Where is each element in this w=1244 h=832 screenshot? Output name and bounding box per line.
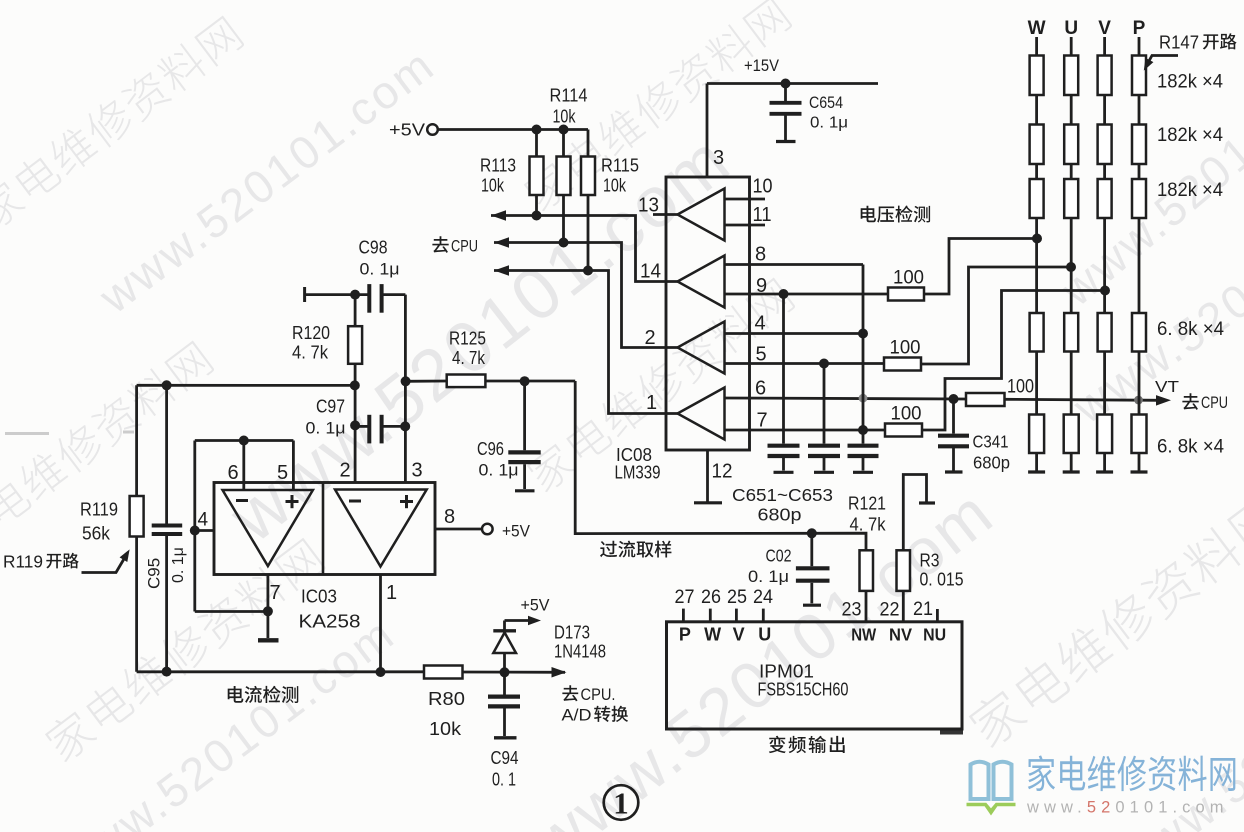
power +15V rail — [707, 57, 878, 84]
comparator IC08 LM339 body — [666, 177, 750, 450]
svg-text:C341: C341 — [973, 432, 1009, 452]
wire U across VT line — [1070, 352, 1073, 415]
node R115 bottom on CPU wire 3 — [583, 266, 593, 276]
pin 5 lead — [292, 441, 295, 491]
node P column junction on VT line — [1134, 396, 1143, 405]
svg-text:VT: VT — [1155, 379, 1179, 396]
svg-text:NV: NV — [889, 625, 912, 645]
pin 4 lead — [195, 529, 214, 532]
op-amp B triangle — [335, 490, 427, 567]
svg-text:182k ×4: 182k ×4 — [1157, 180, 1223, 201]
wire current-sense bottom line — [137, 670, 424, 673]
comparator U1C triangle — [678, 322, 725, 374]
svg-text:3: 3 — [713, 147, 724, 169]
wire overcurrent sense line — [575, 381, 866, 550]
wire V across VT line — [1103, 352, 1106, 415]
resistor U 6.8k lower — [1063, 415, 1080, 473]
svg-text:LM339: LM339 — [615, 462, 661, 483]
label R80 10k — [428, 688, 465, 739]
wire +5V rail to R115 — [438, 128, 588, 131]
pin 13 output stub — [653, 213, 678, 216]
pin 1 lead — [379, 575, 382, 673]
pin 4 line — [725, 332, 864, 335]
pin 3 V+ lead — [706, 84, 709, 178]
logo text 家电维修资料网 — [1028, 755, 1236, 791]
svg-text:C651~C653: C651~C653 — [732, 485, 833, 505]
node R114 bottom on CPU wire 2 — [559, 238, 569, 248]
node C02 junction — [807, 528, 817, 538]
resistor U 6.8k upper — [1064, 313, 1078, 352]
svg-text:D173: D173 — [554, 623, 590, 643]
svg-text:1N4148: 1N4148 — [554, 642, 606, 662]
svg-text:+5V: +5V — [389, 120, 425, 140]
svg-text:R3: R3 — [920, 550, 940, 571]
svg-text:CPU: CPU — [451, 237, 478, 256]
wire feedback bottom — [195, 610, 268, 613]
resistor W 6.8k upper — [1030, 313, 1044, 352]
capacitor C02 — [796, 533, 830, 605]
svg-text:P: P — [1133, 18, 1146, 39]
capacitor C652 — [808, 364, 840, 473]
wire W across VT line — [1035, 352, 1038, 415]
resistor P 6.8k lower — [1131, 415, 1148, 473]
svg-text:NU: NU — [923, 625, 946, 645]
svg-text:6. 8k ×4: 6. 8k ×4 — [1157, 437, 1224, 458]
resistor ladder U 182k row3 — [1064, 164, 1078, 218]
svg-text:23: 23 — [842, 600, 862, 621]
node D173 C94 junction — [500, 667, 510, 677]
power +5V terminal — [389, 120, 438, 140]
resistor ladder P 182k row3 — [1132, 164, 1146, 218]
node pin6 net junction C341 — [949, 394, 959, 404]
wire pin8-pin4-pin7 vertical bus — [862, 265, 865, 444]
wire 100#1 to W column — [924, 239, 1037, 295]
capacitor C654 — [770, 84, 802, 142]
svg-text:6: 6 — [227, 462, 238, 484]
leader arrow R147 — [1144, 56, 1178, 71]
capacitor C94 — [488, 672, 520, 738]
svg-text:100: 100 — [1007, 377, 1034, 398]
op-amp IC03 KA258 body — [214, 483, 435, 575]
label R115 10k — [601, 155, 639, 196]
resistor 100 #2 — [884, 358, 921, 371]
label R147 open — [1159, 32, 1237, 53]
pin 7 lead and ground — [258, 575, 279, 641]
wire 100#2 to U column — [921, 267, 1071, 364]
label C98 0.1u — [359, 237, 400, 279]
resistor V 6.8k upper — [1098, 313, 1112, 352]
label R3 0.015 — [920, 550, 964, 590]
resistor ladder V 182k row1 — [1098, 37, 1112, 95]
pin 26 stub — [709, 609, 712, 622]
wire stub C98 left terminal — [305, 287, 369, 302]
logo url www.520101.com — [1026, 799, 1229, 817]
capacitor C97 — [355, 415, 405, 444]
svg-text:R80: R80 — [428, 688, 465, 709]
svg-text:C96: C96 — [477, 438, 504, 459]
pin 6 lead — [242, 441, 245, 491]
svg-text:R119: R119 — [80, 499, 118, 520]
resistor ladder U 182k row2 — [1064, 95, 1078, 164]
svg-text:14: 14 — [640, 261, 661, 283]
resistor ladder V 182k row3 — [1098, 164, 1112, 218]
svg-text:+5V: +5V — [502, 523, 530, 541]
label C97 0.1u — [306, 396, 346, 438]
node C96 top — [520, 376, 530, 386]
capacitor C651 — [768, 294, 800, 472]
svg-text:CPU: CPU — [1201, 394, 1228, 412]
pin 5 line — [725, 362, 885, 365]
svg-text:V: V — [733, 625, 745, 645]
node R113 top junction — [532, 125, 542, 135]
wire V column to junction — [1103, 218, 1106, 313]
node pin 4 — [190, 526, 200, 536]
svg-text:4. 7k: 4. 7k — [850, 515, 887, 535]
svg-text:3: 3 — [411, 460, 422, 482]
svg-text:8: 8 — [444, 506, 455, 528]
svg-text:R119: R119 — [3, 552, 43, 572]
node R113 bottom on CPU wire 1 — [532, 211, 542, 221]
svg-text:8: 8 — [755, 244, 766, 266]
wire P column down — [1138, 218, 1141, 313]
wire pins 6-5 top link — [195, 439, 294, 442]
svg-text:27: 27 — [675, 587, 695, 608]
wire to CPU 2 (pin 2 net) — [494, 237, 678, 347]
resistor W 6.8k lower — [1028, 415, 1045, 473]
svg-text:R121: R121 — [848, 493, 886, 514]
svg-text:26: 26 — [701, 587, 721, 608]
wire R120 to pin2 via C97 node — [354, 385, 357, 482]
resistor R125 — [406, 375, 576, 388]
pin 8 line — [725, 263, 864, 266]
label 去CPU — [432, 236, 478, 255]
scan artifact dashes — [5, 432, 49, 435]
svg-text:680p: 680p — [973, 453, 1010, 473]
svg-text:1: 1 — [613, 786, 629, 821]
wire feedback left rail — [193, 441, 196, 612]
resistor R80 — [424, 666, 567, 679]
label C654 0.1u — [809, 93, 848, 132]
node V column junction — [1100, 286, 1110, 296]
svg-text:6. 8k ×4: 6. 8k ×4 — [1157, 319, 1224, 340]
svg-text:0. 1μ: 0. 1μ — [360, 260, 400, 279]
svg-text:5: 5 — [277, 462, 288, 484]
svg-text:1: 1 — [386, 582, 397, 604]
wire U column to junction — [1070, 218, 1073, 313]
wire inverting input net horizontal — [137, 384, 355, 387]
resistor 100 #4 — [966, 393, 1005, 406]
module IPM01 FSBS15CH60 body — [667, 622, 963, 729]
svg-text:4. 7k: 4. 7k — [292, 343, 329, 363]
pin 24 stub — [762, 609, 765, 622]
svg-text:10k: 10k — [553, 107, 577, 127]
svg-text:V: V — [1098, 18, 1111, 39]
comparator U1D triangle — [678, 388, 725, 440]
svg-text:U: U — [1064, 18, 1078, 39]
svg-text:A/D: A/D — [562, 706, 592, 725]
pin 9 line — [725, 293, 889, 296]
pin 7 line — [725, 429, 886, 432]
resistor ladder W 182k row1 — [1030, 37, 1044, 95]
svg-text:0. 1μ: 0. 1μ — [748, 567, 789, 586]
svg-text:C95: C95 — [145, 558, 164, 589]
label R120 4.7k — [292, 322, 330, 363]
svg-text:10: 10 — [753, 176, 773, 198]
svg-text:0. 015: 0. 015 — [920, 570, 964, 590]
svg-text:5: 5 — [756, 344, 767, 366]
resistor V 6.8k lower — [1096, 415, 1113, 473]
svg-text:4. 7k: 4. 7k — [452, 348, 486, 368]
op-amp A triangle — [223, 490, 313, 566]
label 去CPU right — [1182, 393, 1228, 412]
svg-text:0. 1μ: 0. 1μ — [810, 115, 848, 132]
label 变频输出 — [769, 736, 786, 753]
svg-text:22: 22 — [880, 600, 900, 621]
label 去CPU AD — [562, 685, 629, 725]
label C341 680p — [973, 432, 1011, 473]
svg-text:KA258: KA258 — [299, 611, 361, 632]
pin 27 stub — [682, 609, 685, 622]
svg-text:21: 21 — [913, 599, 933, 620]
resistor ladder W 182k row2 — [1030, 95, 1044, 164]
pin 8 lead and +5V terminal — [435, 523, 530, 541]
wire W column to junction — [1035, 218, 1038, 313]
svg-text:C654: C654 — [809, 93, 843, 112]
logo book icon — [967, 762, 1016, 813]
svg-text:W: W — [1028, 18, 1046, 39]
svg-text:25: 25 — [727, 587, 747, 608]
page number circle 1 — [604, 785, 639, 820]
resistor ladder P 182k row2 — [1132, 95, 1146, 164]
svg-text:IC03: IC03 — [301, 586, 337, 607]
comparator U1B triangle — [678, 256, 725, 308]
svg-text:7: 7 — [270, 582, 281, 604]
svg-text:+15V: +15V — [744, 57, 779, 75]
pin 6 line to 100 ohm — [725, 398, 967, 399]
wire VT line to CPU — [1005, 395, 1172, 406]
svg-text:R113: R113 — [480, 155, 516, 176]
resistor ladder W 182k row3 — [1030, 164, 1044, 218]
svg-text:6: 6 — [755, 378, 766, 400]
label D173 1N4148 — [554, 623, 606, 662]
node C95 bottom — [162, 667, 172, 677]
label R114 10k — [550, 85, 588, 127]
svg-text:0. 1μ: 0. 1μ — [479, 461, 519, 480]
svg-text:10k: 10k — [603, 176, 627, 196]
resistor R115 — [581, 130, 595, 271]
node R120 bottom — [350, 380, 360, 390]
label R121 4.7k — [848, 493, 886, 535]
svg-text:1: 1 — [646, 392, 657, 414]
resistor R113 — [530, 130, 544, 216]
svg-text:0. 1: 0. 1 — [492, 770, 516, 790]
node C95 top — [162, 380, 172, 390]
svg-text:10k: 10k — [429, 718, 462, 739]
diode D173 — [493, 616, 541, 673]
node C97 left — [350, 420, 360, 430]
wire to CPU 1 (pin 14 net) — [491, 210, 678, 281]
resistor R121 — [860, 550, 874, 622]
resistor 100 #3 — [885, 424, 922, 437]
svg-text:100: 100 — [891, 404, 922, 425]
resistor ladder P 182k row1 — [1132, 37, 1146, 95]
svg-text:R147: R147 — [1159, 32, 1199, 53]
svg-text:9: 9 — [756, 275, 767, 297]
svg-text:R120: R120 — [292, 322, 330, 343]
svg-text:C02: C02 — [766, 546, 792, 566]
svg-text:4: 4 — [755, 313, 766, 335]
resistor ladder V 182k row2 — [1098, 95, 1112, 164]
svg-text:182k ×4: 182k ×4 — [1157, 72, 1223, 93]
comparator U1A triangle — [678, 189, 725, 241]
node R120 top — [350, 290, 360, 300]
node pin6 x863 crossing — [859, 394, 868, 403]
node R125 left — [401, 376, 411, 386]
label C651~C653 680p — [732, 485, 833, 525]
node pin5 to C652 — [819, 359, 829, 369]
pin 25 stub — [735, 609, 738, 622]
svg-text:P: P — [679, 625, 691, 645]
label 电压检测 — [861, 206, 876, 223]
label IC03 KA258 — [299, 586, 361, 632]
resistor R3 with open stub — [897, 475, 936, 622]
svg-text:FSBS15CH60: FSBS15CH60 — [758, 679, 849, 700]
svg-text:C94: C94 — [491, 748, 519, 768]
resistor 100 #1 — [888, 288, 924, 301]
wire to CPU 3 (pin 1 net) — [494, 265, 678, 413]
wire 100#3 to V column — [922, 291, 1105, 431]
watermark row 1 — [0, 13, 245, 233]
label 电流检测 — [228, 686, 244, 703]
svg-text:56k: 56k — [82, 524, 111, 544]
capacitor C98 — [369, 284, 405, 313]
label C02 0.1u — [748, 546, 792, 587]
svg-text:680p: 680p — [758, 505, 802, 525]
capacitor C96 — [508, 381, 540, 491]
label C94 0.1 — [491, 748, 519, 790]
capacitor C95 — [152, 385, 183, 671]
resistor R119 — [130, 385, 144, 672]
label R125 4.7k — [449, 328, 486, 369]
node pin7 junction x863 — [858, 425, 868, 435]
svg-text:R114: R114 — [550, 85, 588, 106]
svg-text:R115: R115 — [601, 155, 639, 176]
svg-text:11: 11 — [753, 204, 772, 226]
capacitor C341 — [938, 399, 969, 472]
svg-text:C97: C97 — [316, 396, 345, 417]
node R114 top junction — [559, 125, 569, 135]
resistor R120 — [348, 295, 362, 386]
label IC08 LM339 — [615, 444, 661, 483]
node C654 junction — [781, 79, 791, 89]
node U column junction — [1066, 262, 1076, 272]
pin 21 stub — [936, 609, 939, 622]
wire P across VT line — [1138, 352, 1141, 415]
svg-text:10k: 10k — [481, 176, 505, 196]
resistor ladder U 182k row1 — [1064, 37, 1078, 95]
svg-text:4: 4 — [198, 510, 209, 531]
node C97 right — [400, 421, 410, 431]
svg-text:13: 13 — [638, 195, 659, 217]
node pin 6 top — [239, 436, 249, 446]
label R119 open — [3, 552, 79, 572]
leader arrow R119 — [82, 549, 130, 572]
label 过流取样 — [600, 541, 617, 558]
node pin9 to C651 — [779, 289, 789, 299]
svg-text:NW: NW — [851, 625, 876, 645]
svg-text:24: 24 — [753, 587, 773, 608]
svg-text:7: 7 — [757, 410, 768, 432]
label R113 10k — [480, 155, 516, 196]
svg-text:R125: R125 — [449, 328, 486, 349]
svg-text:12: 12 — [712, 461, 733, 483]
label IPM01 FSBS15CH60 — [758, 661, 849, 700]
resistor R114 — [557, 130, 571, 243]
pin 12 ground lead — [694, 450, 722, 503]
node pin4 junction x863 — [858, 329, 868, 339]
pin 10 line — [725, 198, 766, 201]
svg-text:C98: C98 — [359, 237, 388, 258]
capacitor C653 — [848, 446, 879, 473]
label C96 0.1u — [477, 438, 519, 480]
svg-text:+5V: +5V — [521, 597, 550, 615]
node op-amp output — [376, 667, 386, 677]
svg-text:2: 2 — [645, 327, 656, 349]
svg-text:100: 100 — [893, 268, 924, 289]
wire C98 right down to pin3 — [404, 295, 407, 483]
resistor P 6.8k upper — [1132, 313, 1146, 352]
svg-text:CPU.: CPU. — [581, 685, 616, 704]
svg-text:0. 1μ: 0. 1μ — [306, 419, 346, 438]
node pin 7 output — [263, 606, 273, 616]
svg-text:2: 2 — [339, 460, 350, 482]
svg-text:182k ×4: 182k ×4 — [1157, 125, 1223, 146]
node W column junction — [1032, 234, 1042, 244]
label C95 0.1u rotated — [145, 547, 188, 589]
pin 11 line — [725, 224, 766, 227]
svg-text:W: W — [704, 625, 721, 645]
svg-text:U: U — [758, 625, 771, 645]
svg-text:0. 1μ: 0. 1μ — [170, 547, 187, 583]
svg-text:www.520101.com: www.520101.com — [1026, 799, 1229, 817]
svg-text:100: 100 — [890, 338, 921, 359]
label R119 56k — [80, 499, 118, 544]
